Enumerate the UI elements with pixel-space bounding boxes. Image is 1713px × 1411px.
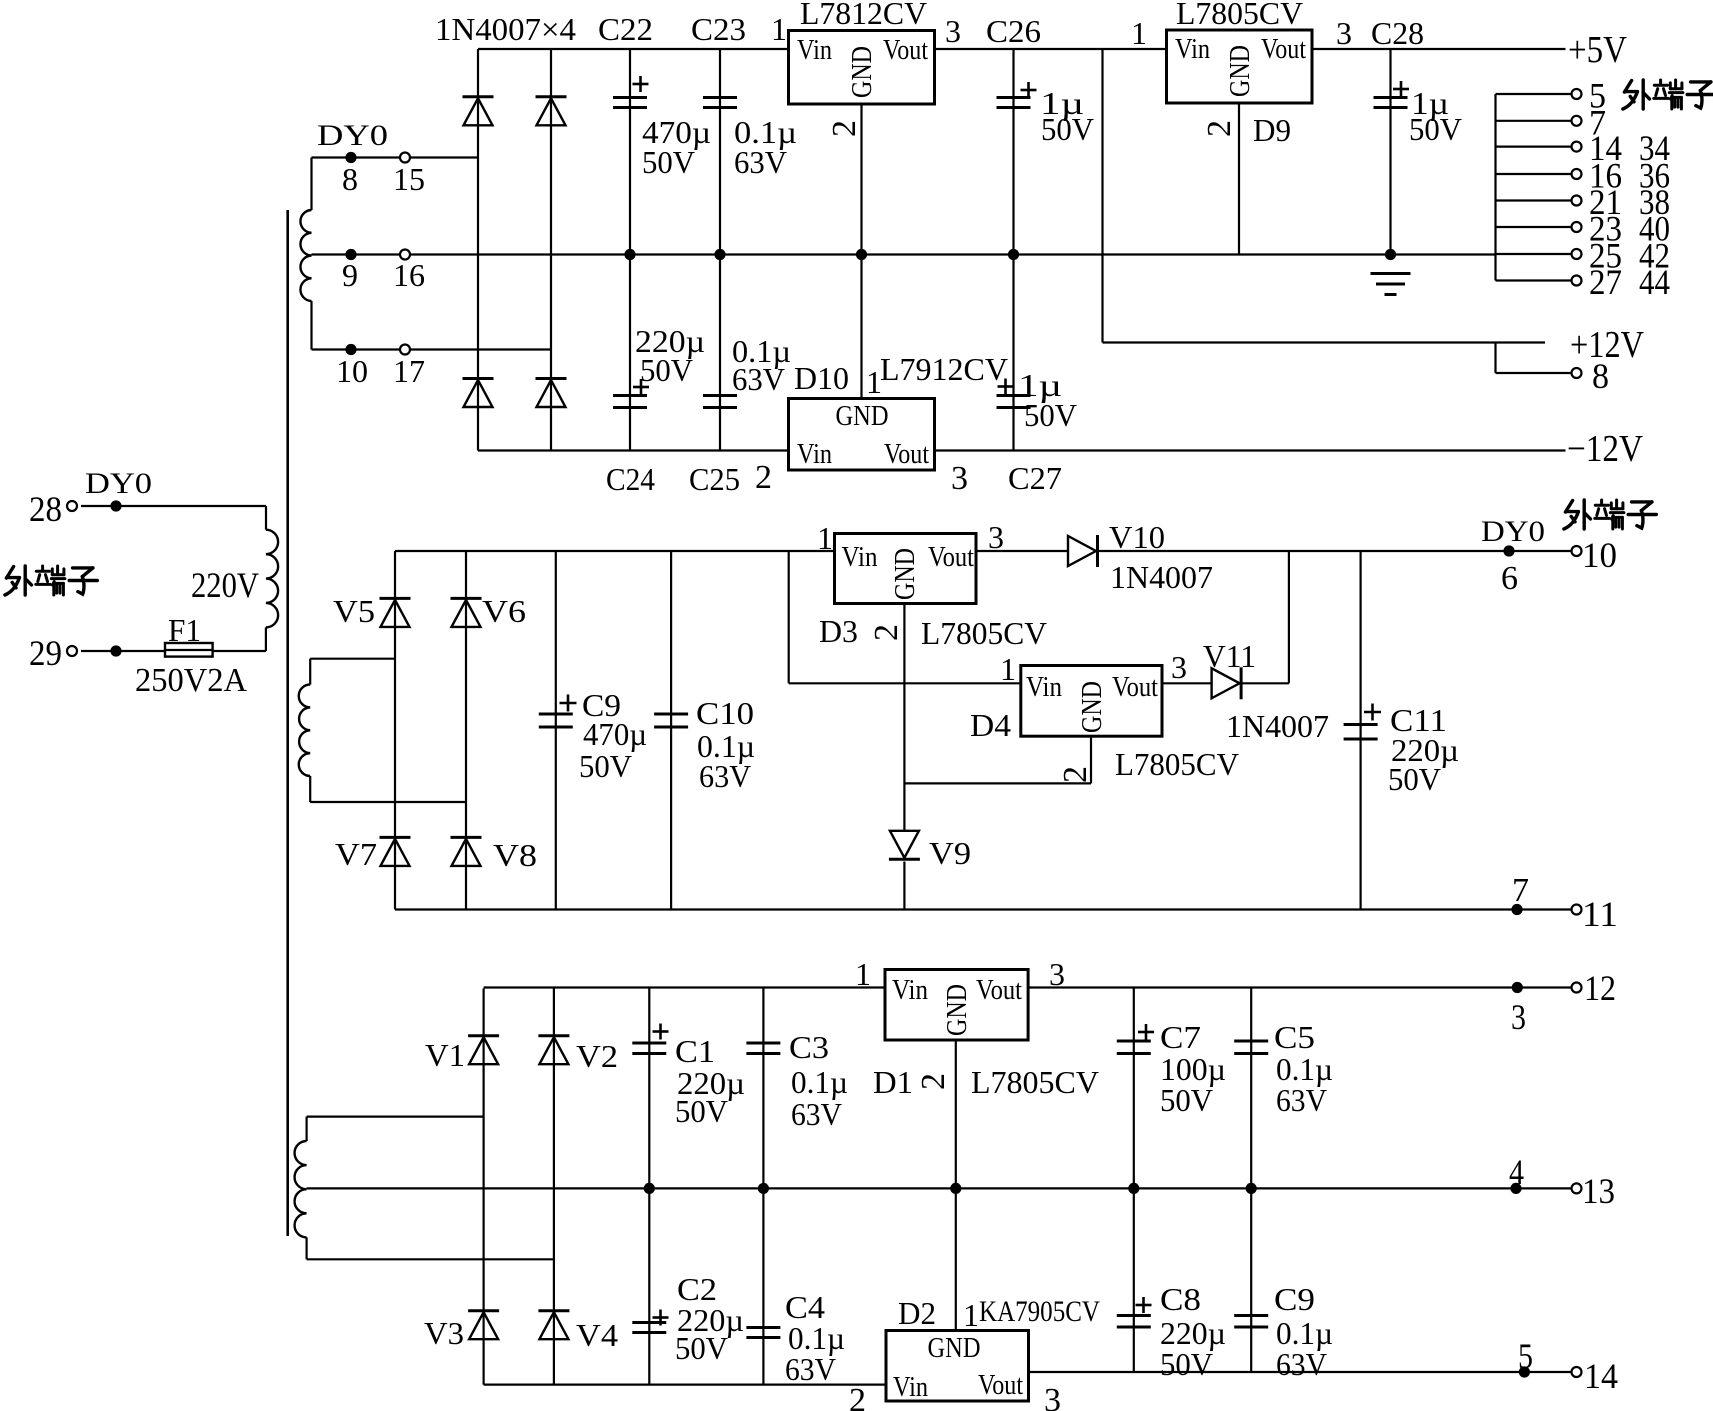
U1 Vin bbox=[797, 35, 832, 66]
terminal 17 bbox=[400, 345, 410, 355]
terminal 10 circle bbox=[1572, 546, 1582, 556]
diode bridge bottom-left bbox=[463, 379, 494, 408]
wire wire C25 column bbox=[719, 255, 721, 451]
label V5 bbox=[333, 593, 375, 629]
label term 21 bbox=[1589, 182, 1622, 222]
label D2 bbox=[898, 1295, 936, 1331]
wire terminal8 stub bbox=[1496, 372, 1577, 374]
D9 GND bbox=[1225, 45, 1256, 97]
label 10 bbox=[336, 353, 368, 389]
svg-text:V3: V3 bbox=[424, 1315, 464, 1351]
V11 value 1N4007 bbox=[1226, 708, 1329, 744]
svg-text:2: 2 bbox=[826, 120, 863, 137]
winding DY0 secondary 1 bbox=[300, 210, 311, 301]
wire wire C26 column bbox=[1012, 49, 1014, 255]
capacitor C2 bbox=[632, 1323, 666, 1333]
D2 Vout bbox=[978, 1370, 1023, 1401]
C9 plus bbox=[560, 695, 577, 712]
wire wire 29 input bbox=[81, 650, 165, 652]
label KA7905CV bbox=[979, 1295, 1100, 1328]
wire node4 to terminal 13 bbox=[1516, 1187, 1577, 1189]
wire wire D9 Vout to +5V bbox=[1312, 48, 1566, 50]
label C3 bbox=[789, 1029, 829, 1065]
D10 pin2 label bbox=[755, 459, 772, 496]
label F1 bbox=[168, 612, 201, 648]
wire middle winding top tap bbox=[310, 658, 395, 660]
svg-text:D10: D10 bbox=[794, 360, 849, 396]
svg-text:1: 1 bbox=[855, 956, 871, 992]
label C24 bbox=[606, 461, 655, 497]
fuse F1 bbox=[165, 643, 213, 657]
C27 value 50V bbox=[1024, 397, 1077, 433]
wire +12V output line bbox=[1103, 341, 1546, 343]
svg-text:Vin: Vin bbox=[1175, 34, 1210, 65]
D10 pin3 label bbox=[951, 460, 968, 497]
svg-text:L7805CV: L7805CV bbox=[1115, 746, 1239, 782]
C26 plus bbox=[1021, 82, 1037, 98]
wire V9 to bottom rail bbox=[903, 862, 905, 910]
C9 value 50V bbox=[579, 748, 632, 784]
D3 pin2 label bbox=[868, 624, 905, 641]
D10 Vout bbox=[884, 439, 929, 470]
label term 5 bbox=[1589, 76, 1606, 116]
svg-text:13: 13 bbox=[1582, 1171, 1615, 1211]
label C9 bottom bbox=[1274, 1281, 1315, 1317]
svg-text:C9: C9 bbox=[1274, 1281, 1315, 1317]
wire V11 cathode wire bbox=[1241, 682, 1289, 684]
wire terminal8 drop bbox=[1494, 343, 1496, 374]
svg-text:L7805CV: L7805CV bbox=[1176, 0, 1303, 31]
svg-text:50V: 50V bbox=[1160, 1346, 1213, 1382]
wire D4 feed rail bbox=[789, 682, 1021, 684]
label V10 bbox=[1109, 519, 1165, 555]
svg-text:12: 12 bbox=[1584, 968, 1616, 1008]
label V7 bbox=[335, 836, 377, 872]
svg-text:GND: GND bbox=[928, 1333, 981, 1364]
wire middle winding top vert bbox=[309, 659, 311, 685]
D1 GND bbox=[942, 984, 973, 1036]
capacitor C5 bbox=[1234, 1041, 1268, 1054]
wire node3 to terminal 12 bbox=[1517, 986, 1576, 988]
D1 pin2 label bbox=[915, 1073, 952, 1090]
svg-text:220V: 220V bbox=[191, 565, 259, 605]
svg-text:15: 15 bbox=[393, 161, 425, 197]
wire wire C24 column bbox=[629, 255, 631, 451]
label C26 bbox=[986, 13, 1041, 49]
C28 value 50V bbox=[1409, 111, 1462, 147]
label term 25 bbox=[1589, 236, 1622, 276]
C9b value 63V bbox=[1276, 1346, 1327, 1382]
label term 13 bbox=[1582, 1171, 1615, 1211]
label C5 bbox=[1274, 1019, 1315, 1055]
terminal 12 circle bbox=[1572, 983, 1582, 993]
svg-text:Vout: Vout bbox=[883, 35, 928, 66]
diode V2 bbox=[538, 1036, 569, 1065]
capacitor C8 bbox=[1117, 1316, 1151, 1328]
capacitor C26 bbox=[997, 98, 1031, 108]
label term 36 bbox=[1639, 156, 1670, 196]
svg-text:C23: C23 bbox=[691, 11, 746, 47]
svg-text:DY0: DY0 bbox=[317, 119, 388, 152]
svg-text:V6: V6 bbox=[482, 593, 526, 629]
C25 value 63V bbox=[732, 361, 785, 397]
svg-text:V8: V8 bbox=[493, 837, 537, 873]
ground symbol bbox=[1371, 274, 1411, 295]
label term 38 bbox=[1639, 182, 1670, 222]
diode V4 bbox=[538, 1311, 569, 1340]
terminal 28 circle bbox=[67, 501, 77, 511]
label 15 bbox=[393, 161, 425, 197]
label 29 bbox=[29, 633, 62, 673]
label C11 bbox=[1390, 702, 1447, 738]
label term 34 bbox=[1639, 128, 1670, 168]
D9 pin3 label bbox=[1336, 15, 1352, 51]
label D3 bbox=[819, 613, 858, 649]
label DY0 left bbox=[85, 467, 152, 500]
diode bridge bottom-right bbox=[536, 379, 567, 408]
D4 pin3 label bbox=[1171, 649, 1187, 685]
label L7912CV bbox=[880, 351, 1008, 387]
wire terminal row 14 stub bbox=[1496, 146, 1577, 148]
wire wire C9 column bbox=[555, 551, 557, 910]
wire wire C7 column bbox=[1133, 988, 1135, 1189]
svg-text:D1: D1 bbox=[873, 1064, 913, 1100]
wire wire C10 column bbox=[670, 551, 672, 910]
C24 plus bbox=[633, 379, 649, 395]
C8 plus bbox=[1136, 1297, 1152, 1313]
D1 pin1 label bbox=[855, 956, 871, 992]
label D4 bbox=[970, 707, 1011, 743]
junction C5-bus bbox=[1246, 1183, 1257, 1194]
wire V2 column bbox=[553, 989, 555, 1385]
wire wire L7812 Vout to D9 Vin bbox=[935, 48, 1167, 50]
label term 14 bbox=[1589, 128, 1622, 168]
svg-text:63V: 63V bbox=[734, 144, 787, 180]
svg-text:Vin: Vin bbox=[1026, 672, 1062, 703]
diode V6 bbox=[451, 598, 482, 627]
diode bridge top-right bbox=[536, 97, 567, 126]
svg-text:C10: C10 bbox=[696, 695, 754, 731]
U1 Vout bbox=[883, 35, 928, 66]
label C4 bbox=[785, 1289, 825, 1325]
label 7 bbox=[1512, 872, 1529, 909]
wire terminal row 16 stub bbox=[1496, 173, 1577, 175]
C22 plus bbox=[633, 76, 649, 92]
svg-text:V10: V10 bbox=[1109, 519, 1165, 555]
C7 plus bbox=[1138, 1024, 1154, 1040]
label -12V bbox=[1567, 428, 1643, 470]
C26 value 50V bbox=[1041, 111, 1094, 147]
capacitor C24 bbox=[613, 396, 647, 408]
C3 value 0.1u bbox=[791, 1064, 848, 1100]
C5 value 63V bbox=[1276, 1082, 1327, 1118]
C9b value 0.1u bbox=[1276, 1315, 1333, 1351]
svg-text:Vout: Vout bbox=[978, 1370, 1023, 1401]
svg-text:GND: GND bbox=[942, 984, 973, 1036]
U1 GND bbox=[847, 46, 878, 98]
label D9 bbox=[1253, 112, 1291, 148]
svg-text:V4: V4 bbox=[576, 1317, 618, 1353]
svg-text:470µ: 470µ bbox=[583, 716, 647, 752]
svg-text:2: 2 bbox=[849, 1382, 866, 1411]
label C2 bbox=[677, 1271, 717, 1307]
svg-text:27: 27 bbox=[1589, 262, 1622, 302]
label term 27 bbox=[1589, 262, 1622, 302]
label term 44 bbox=[1639, 262, 1670, 302]
label wai-duan-zi middle right bbox=[1564, 500, 1656, 529]
U1 pin1 label bbox=[771, 11, 787, 47]
svg-text:50V: 50V bbox=[1160, 1082, 1213, 1118]
wire wire C23 column bbox=[719, 49, 721, 255]
label V4 bbox=[576, 1317, 618, 1353]
capacitor C27 bbox=[997, 396, 1031, 408]
D4 Vin bbox=[1026, 672, 1062, 703]
svg-text:D9: D9 bbox=[1253, 112, 1291, 148]
D2 pin2 label bbox=[849, 1382, 866, 1411]
C11 value 220u bbox=[1391, 732, 1459, 768]
terminal 14 circle bbox=[1572, 142, 1582, 152]
D2 Vin bbox=[893, 1372, 928, 1403]
C9 value 470u bbox=[583, 716, 647, 752]
regulator D1 L7805CV box bbox=[885, 970, 1028, 1041]
C23 value 0.1u bbox=[734, 114, 797, 150]
C1 value 220u bbox=[677, 1065, 745, 1101]
label V2 bbox=[576, 1038, 618, 1074]
label 1N4007x4 bbox=[435, 11, 576, 47]
svg-text:Vin: Vin bbox=[797, 35, 832, 66]
capacitor C25 bbox=[703, 396, 737, 408]
svg-text:C26: C26 bbox=[986, 13, 1041, 49]
label +5V bbox=[1568, 29, 1627, 71]
capacitor C4 bbox=[746, 1328, 780, 1338]
C24 value 50V bbox=[640, 352, 693, 388]
wire wire C2 column bbox=[648, 1188, 650, 1384]
wire primary bottom vert bbox=[265, 627, 267, 651]
terminal 14 circle bbox=[1572, 1367, 1582, 1377]
svg-text:63V: 63V bbox=[791, 1096, 842, 1132]
label C25 bbox=[689, 461, 740, 497]
label term 8 bbox=[1592, 356, 1609, 396]
wire primary bottom to fuse bbox=[213, 650, 266, 652]
label C28 bbox=[1371, 15, 1424, 51]
diode V10 bbox=[1068, 535, 1098, 567]
terminal 8 circle bbox=[1572, 368, 1582, 378]
label 220V bbox=[191, 565, 259, 605]
C25 value 0.1u bbox=[732, 333, 791, 369]
label 16 bbox=[393, 257, 425, 293]
D4 pin1 label bbox=[1000, 651, 1016, 687]
svg-text:2: 2 bbox=[1057, 766, 1094, 783]
svg-text:50V: 50V bbox=[675, 1330, 728, 1366]
wire +12V unregulated rail top bbox=[478, 48, 789, 50]
label term 7 bbox=[1589, 102, 1606, 142]
svg-text:50V: 50V bbox=[1024, 397, 1077, 433]
label D10 bbox=[794, 360, 849, 396]
wire ground bus (center tap 9-16) bbox=[312, 253, 1496, 255]
svg-text:8: 8 bbox=[342, 161, 358, 197]
D4 Vout bbox=[1112, 672, 1158, 703]
terminal 29 circle bbox=[67, 646, 77, 656]
svg-text:−12V: −12V bbox=[1567, 428, 1643, 470]
label C22 bbox=[598, 11, 653, 47]
C2 value 50V bbox=[675, 1330, 728, 1366]
label C10 bbox=[696, 695, 754, 731]
wire wire tap 8-15 to bridge bbox=[312, 156, 479, 158]
svg-text:1N4007: 1N4007 bbox=[1226, 708, 1329, 744]
svg-text:L7812CV: L7812CV bbox=[800, 0, 927, 31]
V10 value 1N4007 bbox=[1110, 559, 1213, 595]
D2 pin3 label bbox=[1044, 1382, 1061, 1411]
terminal 16 bbox=[400, 250, 410, 260]
wire wire C5 column bbox=[1250, 988, 1252, 1189]
C11 plus bbox=[1364, 704, 1381, 721]
label L7805CV D1 bbox=[971, 1064, 1099, 1100]
svg-text:16: 16 bbox=[393, 257, 425, 293]
svg-text:5: 5 bbox=[1518, 1336, 1533, 1376]
wire bottom winding top vert bbox=[306, 1117, 308, 1141]
regulator U1 L7812CV box bbox=[789, 31, 935, 105]
label L7812CV bbox=[800, 0, 927, 31]
C7 value 50V bbox=[1160, 1082, 1213, 1118]
terminal 15 bbox=[400, 153, 410, 163]
label V6 bbox=[482, 593, 526, 629]
capacitor C7 bbox=[1117, 1041, 1151, 1054]
svg-text:10: 10 bbox=[1582, 535, 1617, 575]
C24 value 220u bbox=[635, 323, 705, 359]
D10 Vin bbox=[797, 439, 832, 470]
C8 value 220u bbox=[1160, 1315, 1226, 1351]
svg-text:V11: V11 bbox=[1203, 638, 1256, 674]
C28 plus bbox=[1393, 81, 1409, 97]
wire D4 feed drop bbox=[788, 551, 790, 683]
winding 220V primary bbox=[266, 530, 278, 628]
svg-text:GND: GND bbox=[890, 548, 921, 600]
svg-text:11: 11 bbox=[1582, 894, 1618, 934]
svg-text:GND: GND bbox=[1077, 681, 1108, 733]
svg-text:3: 3 bbox=[988, 519, 1004, 555]
wire middle winding bottom tap bbox=[310, 801, 466, 803]
wire D9 GND pin wire bbox=[1238, 103, 1240, 255]
node 4 dot bbox=[1510, 1183, 1521, 1194]
node 6 dot bbox=[1503, 545, 1514, 556]
wire +12V drop wire bbox=[1101, 49, 1103, 343]
label C9 bbox=[582, 687, 621, 723]
C22 value 50V bbox=[642, 144, 695, 180]
wire V1 column bbox=[483, 989, 485, 1385]
wire bridge bottom rail bbox=[478, 449, 789, 451]
svg-text:0.1µ: 0.1µ bbox=[791, 1064, 848, 1100]
terminal 11 circle bbox=[1572, 905, 1582, 915]
svg-text:DY0: DY0 bbox=[1481, 515, 1545, 548]
node 9 dot bbox=[345, 249, 356, 260]
terminal 23 circle bbox=[1572, 222, 1582, 232]
label L7805CV D3 bbox=[921, 615, 1047, 651]
wire wire C11 column bbox=[1359, 551, 1361, 910]
svg-text:2: 2 bbox=[868, 624, 905, 641]
U1 pin3 label bbox=[945, 13, 961, 49]
label term 12 bbox=[1584, 968, 1616, 1008]
svg-text:Vout: Vout bbox=[1112, 672, 1158, 703]
label 250V2A bbox=[135, 662, 247, 699]
label V8 bbox=[493, 837, 537, 873]
winding DY0 secondary 2 bbox=[299, 685, 310, 777]
svg-text:63V: 63V bbox=[1276, 1082, 1327, 1118]
wire wire C3 column bbox=[762, 988, 764, 1189]
C10 value 63V bbox=[699, 758, 751, 794]
C4 value 63V bbox=[785, 1351, 836, 1387]
label V9 bbox=[929, 835, 971, 871]
diode V1 bbox=[468, 1036, 499, 1065]
svg-text:Vin: Vin bbox=[893, 1372, 928, 1403]
diode V7 bbox=[380, 837, 411, 866]
terminal 21 circle bbox=[1572, 196, 1582, 206]
node 3 dot bbox=[1512, 982, 1523, 993]
C27 value 1u bbox=[1018, 367, 1062, 403]
wire D1 Vout line bbox=[1028, 986, 1517, 988]
svg-text:7: 7 bbox=[1512, 872, 1529, 909]
wire terminal block vline bbox=[1494, 94, 1496, 281]
label L7805CV D4 bbox=[1115, 746, 1239, 782]
U1 pin2 label bbox=[826, 120, 863, 137]
svg-text:Vout: Vout bbox=[976, 975, 1022, 1006]
D1 Vin bbox=[892, 975, 928, 1006]
wire bottom winding bottom vert bbox=[306, 1237, 308, 1259]
wire bridge column 2 bbox=[550, 49, 552, 451]
label C7 bbox=[1160, 1019, 1201, 1055]
D9 pin2 label bbox=[1201, 120, 1238, 137]
regulator D2 KA7905CV box bbox=[886, 1331, 1029, 1402]
svg-text:1N4007×4: 1N4007×4 bbox=[435, 11, 576, 47]
D4 GND bbox=[1077, 681, 1108, 733]
node 5 dot bbox=[1519, 1366, 1530, 1377]
wire terminal row 21 stub bbox=[1496, 199, 1577, 201]
D9 pin1 label bbox=[1131, 15, 1147, 51]
label 6 bbox=[1501, 560, 1518, 597]
terminal 7 circle bbox=[1572, 116, 1582, 126]
label C1 bbox=[675, 1033, 715, 1069]
label 8 bbox=[342, 161, 358, 197]
wire wire 28 input bbox=[81, 505, 266, 507]
capacitor C9 bbox=[539, 714, 573, 727]
terminal 13 circle bbox=[1572, 1183, 1582, 1193]
label D1 bbox=[873, 1064, 913, 1100]
svg-text:Vout: Vout bbox=[1261, 34, 1306, 65]
C2 plus bbox=[653, 1310, 669, 1326]
svg-text:V7: V7 bbox=[335, 836, 377, 872]
wire V6 column bbox=[465, 551, 467, 910]
svg-text:250V2A: 250V2A bbox=[135, 662, 247, 699]
wire wire C9b column bbox=[1250, 1188, 1252, 1372]
svg-text:DY0: DY0 bbox=[85, 467, 152, 500]
svg-text:63V: 63V bbox=[785, 1351, 836, 1387]
junction D1gnd-bus bbox=[950, 1183, 961, 1194]
svg-text:C27: C27 bbox=[1008, 460, 1062, 496]
svg-text:50V: 50V bbox=[579, 748, 632, 784]
label 5 (node) bbox=[1518, 1336, 1533, 1376]
label +12V bbox=[1570, 324, 1644, 366]
label term 10 bbox=[1582, 535, 1617, 575]
svg-text:Vin: Vin bbox=[797, 439, 832, 470]
svg-text:9: 9 bbox=[342, 257, 358, 293]
svg-text:L7805CV: L7805CV bbox=[971, 1064, 1099, 1100]
svg-text:14: 14 bbox=[1584, 1356, 1618, 1396]
wire wire C28 column bbox=[1389, 49, 1391, 255]
wire bottom winding top tap bbox=[307, 1115, 484, 1117]
wire V5 column bbox=[394, 551, 396, 910]
wire bottom center tap bus bbox=[307, 1187, 1516, 1189]
label L7805CV top bbox=[1176, 0, 1303, 31]
label V1 bbox=[425, 1037, 465, 1073]
